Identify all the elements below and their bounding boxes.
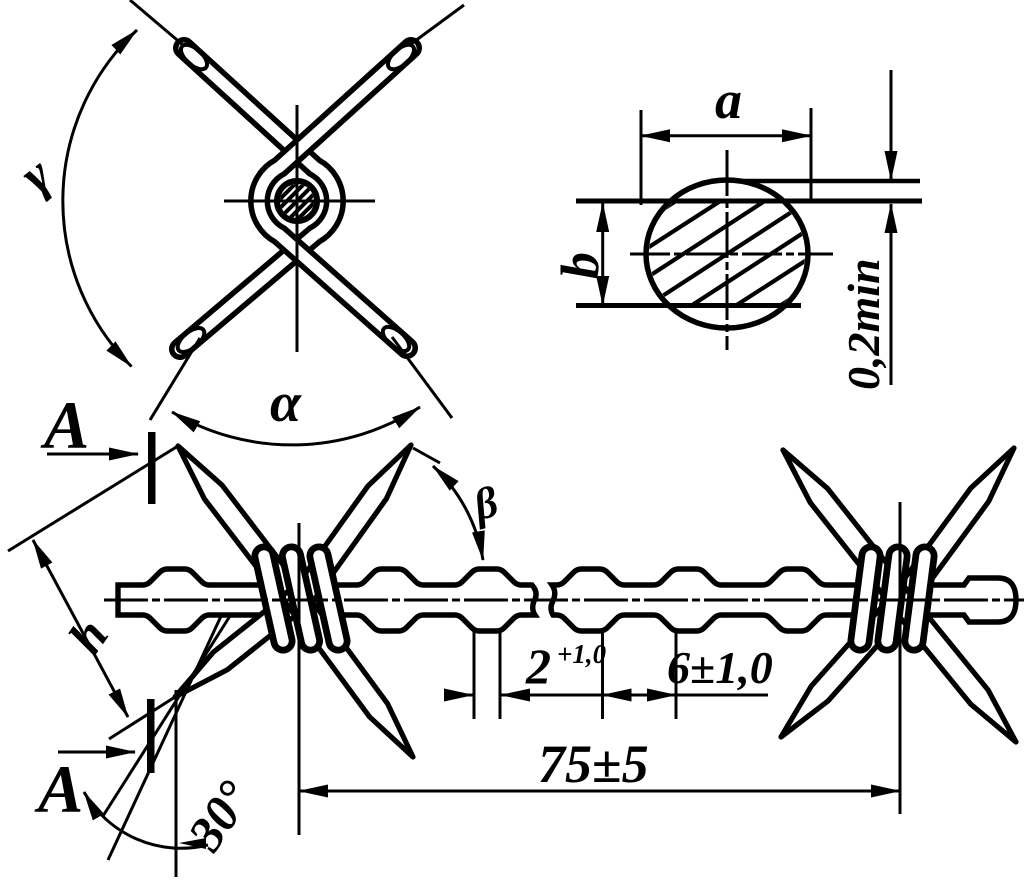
svg-text:0,2min: 0,2min: [838, 258, 889, 390]
dim 6 tail: [676, 694, 768, 697]
dim a extension left: [640, 110, 643, 205]
chamfer ellipse lower-left tip: [174, 324, 209, 357]
dim h extension line bottom: [109, 697, 175, 739]
gamma angle arc: [63, 30, 137, 367]
dim 0,2min lower line with up arrow: [890, 204, 893, 385]
right cluster barb upper-left arm: [783, 450, 916, 614]
left wire segment with crimps: [118, 569, 536, 631]
left cluster twist loop 2: [292, 556, 311, 641]
section plane bar bottom: [147, 699, 155, 773]
30 deg arc: [84, 792, 208, 848]
horizontal centerline of barb view: [224, 200, 375, 203]
horizontal centerline of section: [630, 253, 833, 256]
dim a extension right: [810, 108, 813, 203]
right cluster barb lower-right arm: [884, 584, 1016, 742]
right cluster twist loop 3: [914, 556, 925, 641]
right cluster twist loop 1: [860, 556, 871, 641]
right cluster vertical centerline: [899, 502, 902, 814]
wire dash-dot centerline: [104, 599, 1024, 602]
right cluster barb upper-right arm: [887, 448, 1014, 616]
left cluster twist loop 1: [264, 556, 925, 641]
thin axis line upper-left: [130, 0, 183, 45]
beta axis stub: [413, 448, 440, 463]
left cluster barb upper-left arm: [178, 446, 311, 615]
flat bottom chord line: [576, 303, 801, 308]
svg-text:2: 2: [525, 638, 551, 694]
svg-text:6±1,0: 6±1,0: [667, 642, 773, 693]
dim b line: [601, 203, 604, 305]
svg-text:α: α: [270, 372, 302, 434]
section plane bar top: [148, 432, 156, 504]
dim h line: [33, 540, 128, 717]
thin axis line lower-left: [150, 338, 200, 420]
left cluster barb lower-left arm: [175, 583, 314, 697]
svg-text:75±5: 75±5: [538, 734, 649, 794]
barb band B: upper-right arm, left loop, lower-right arm: [259, 48, 411, 348]
left cluster barb lower-right arm: [281, 583, 413, 757]
chamfer ellipse upper-right tip: [384, 40, 418, 73]
section circle: [646, 180, 808, 328]
dim 6 line with arrows: [603, 694, 677, 697]
view arrow A bottom: [58, 751, 135, 754]
barb band A: upper-left arm, right loop, lower-left arm: [180, 48, 335, 349]
view arrow A top: [47, 453, 138, 456]
hatch of section: [608, 142, 846, 366]
left cluster barb upper-right arm: [284, 445, 411, 617]
dim 2 outside arrow right / dim 6 line: [501, 694, 601, 697]
vertical centerline of section: [726, 150, 729, 350]
left cluster twist loop 3: [319, 556, 338, 641]
svg-text:+1,0: +1,0: [557, 639, 607, 669]
dim 6 extension line left: [601, 628, 604, 719]
vertical thin line through lower barb tip: [175, 690, 178, 877]
dim 2 extension line left: [473, 627, 476, 719]
wire cross-section circle in barb view: [277, 181, 317, 221]
beta angle arc: [433, 466, 483, 560]
dim 0,2min upper line with down arrow: [890, 70, 893, 180]
chamfer ellipse upper-left tip: [177, 40, 211, 73]
middle wire segment with crimps: [551, 569, 1016, 631]
right cluster twist loop 2: [887, 556, 898, 641]
thin axis line lower-right: [392, 337, 452, 418]
dim 75 line: [299, 790, 900, 793]
svg-text:b: b: [550, 252, 610, 279]
dim 6 extension line right: [675, 632, 678, 719]
dim 2 outside arrow left: [446, 694, 473, 697]
svg-text:a: a: [715, 70, 742, 130]
flat top chord line: [576, 199, 922, 204]
svg-text:A: A: [40, 387, 89, 463]
hatch of wire circle: [272, 176, 322, 226]
svg-text:A: A: [34, 751, 83, 827]
dim h extension line top: [8, 446, 178, 551]
left cluster vertical centerline: [298, 523, 301, 835]
dim 2 extension line right: [499, 632, 502, 719]
alpha angle arc: [172, 407, 420, 445]
vertical centerline of barb view: [296, 105, 299, 352]
thin axis line upper-right: [411, 5, 464, 44]
tangent line at circle top: [737, 179, 920, 184]
dim a line: [641, 134, 811, 137]
thin line for 30 deg angle (right): [108, 614, 222, 860]
chamfer ellipse lower-right tip: [379, 322, 414, 355]
right cluster barb lower-left arm: [781, 585, 918, 737]
thin line for 30 deg angle (left): [103, 616, 230, 816]
